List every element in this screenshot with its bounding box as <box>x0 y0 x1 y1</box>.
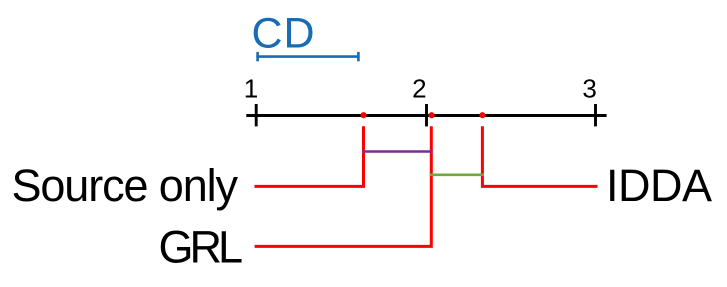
svg-text:CD: CD <box>252 10 315 58</box>
rank dot GRL <box>429 112 435 118</box>
rank dot IDDA <box>479 112 485 118</box>
svg-text:1: 1 <box>244 74 258 104</box>
axis line <box>246 114 606 117</box>
svg-text:IDDA: IDDA <box>606 160 712 211</box>
rank dot Source only <box>360 112 366 118</box>
method line GRL <box>255 126 432 246</box>
tick 3 <box>594 104 597 126</box>
tick 1 <box>255 104 258 126</box>
CD bar right cap <box>357 52 360 61</box>
method line IDDA <box>482 126 597 186</box>
svg-text:GRL: GRL <box>159 222 244 273</box>
tick 2 <box>425 104 428 126</box>
svg-text:3: 3 <box>582 74 596 104</box>
method line Source only <box>255 126 364 186</box>
CD interval bar <box>256 55 359 58</box>
clique bar green (GRL - IDDA) <box>430 174 484 177</box>
clique bar purple (Source only - GRL) <box>362 150 433 153</box>
svg-text:Source only: Source only <box>12 160 239 211</box>
CD bar left cap <box>256 52 259 61</box>
svg-text:2: 2 <box>412 74 426 104</box>
